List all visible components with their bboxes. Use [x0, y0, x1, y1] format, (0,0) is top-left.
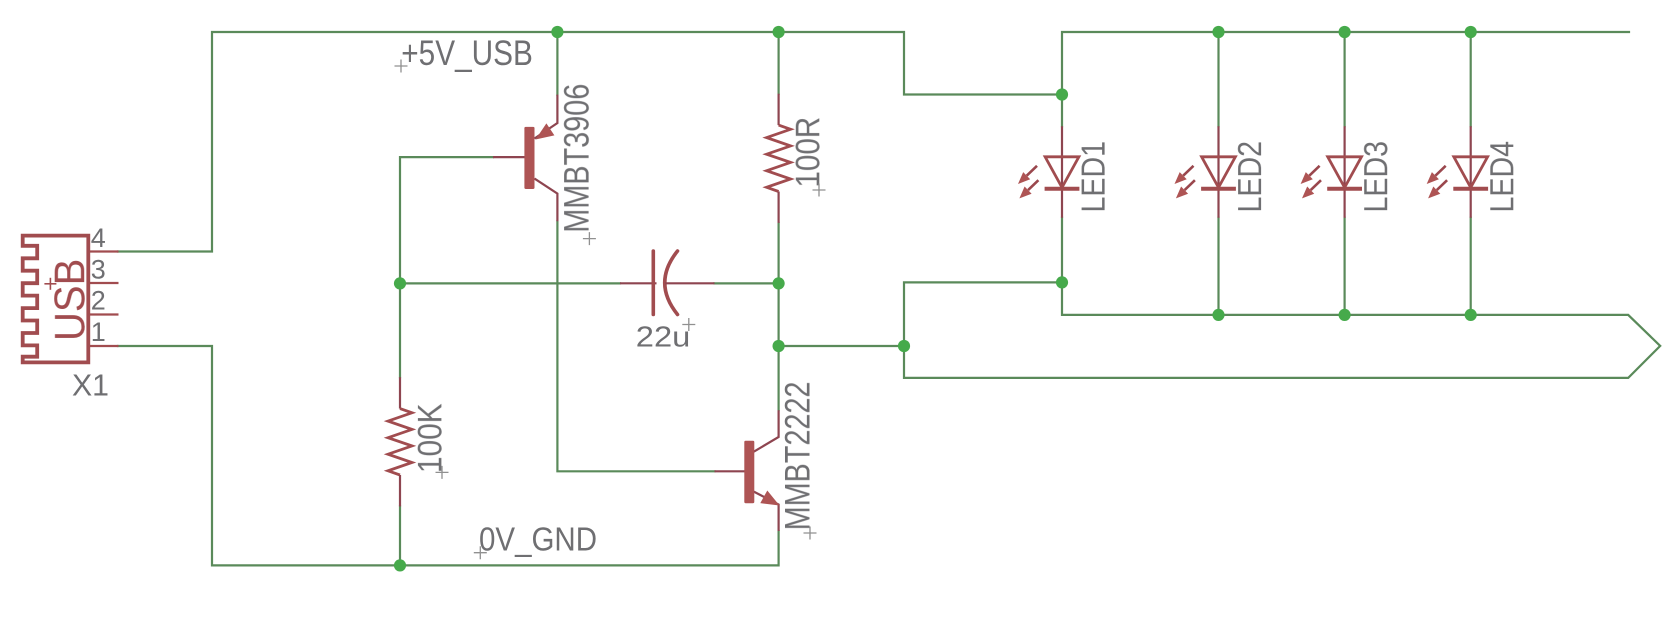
svg-text:LED2: LED2 — [1231, 141, 1268, 213]
svg-text:LED4: LED4 — [1483, 141, 1520, 213]
svg-text:LED3: LED3 — [1357, 141, 1394, 213]
svg-text:X1: X1 — [72, 368, 109, 403]
svg-text:4: 4 — [91, 223, 106, 253]
svg-text:100K: 100K — [411, 403, 449, 473]
svg-text:22u: 22u — [636, 322, 691, 354]
svg-text:100R: 100R — [789, 117, 827, 188]
svg-text:1: 1 — [91, 317, 106, 347]
svg-text:3: 3 — [91, 254, 106, 284]
svg-text:MMBT2222: MMBT2222 — [779, 382, 818, 531]
svg-text:2: 2 — [91, 286, 106, 316]
svg-text:MMBT3906: MMBT3906 — [558, 84, 597, 233]
svg-text:+5V_USB: +5V_USB — [401, 34, 533, 73]
svg-text:LED1: LED1 — [1075, 141, 1112, 213]
svg-text:0V_GND: 0V_GND — [479, 521, 597, 558]
svg-text:USB: USB — [47, 259, 94, 341]
